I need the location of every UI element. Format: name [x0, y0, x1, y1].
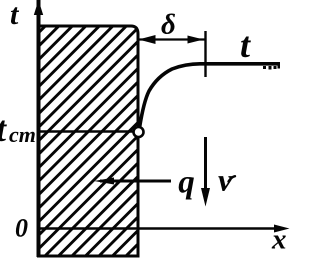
svg-text:cm: cm: [9, 122, 36, 147]
svg-text:δ: δ: [161, 9, 176, 41]
svg-text:0: 0: [15, 214, 28, 243]
svg-text:x: x: [271, 224, 287, 256]
svg-text:t: t: [0, 109, 7, 149]
svg-text:t: t: [10, 0, 20, 31]
svg-text:q: q: [178, 165, 195, 201]
svg-text:t: t: [240, 25, 251, 65]
